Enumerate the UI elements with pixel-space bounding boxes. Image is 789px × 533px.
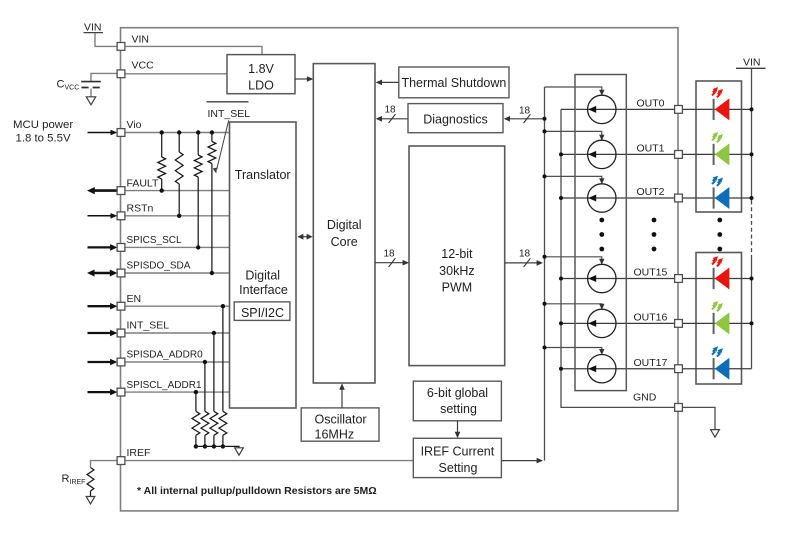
svg-text:Digital: Digital (245, 269, 280, 283)
svg-text:OUT17: OUT17 (634, 357, 668, 369)
wire current-sink row OUT0 (561, 108, 675, 110)
wire OUT0 to LED to VIN rail (682, 108, 751, 110)
block 1.8V LDO (227, 55, 295, 94)
ground (R_IREF) (86, 497, 95, 504)
svg-text:* All internal pullup/pulldow: * All internal pullup/pulldown Resistors… (137, 485, 377, 497)
pin RSTn terminal (117, 212, 125, 220)
IC boundary box (121, 28, 679, 511)
resistor pullup R3 (5M) (194, 155, 202, 177)
wire pullup R1 bottom (160, 179, 164, 193)
label C_VCC (57, 79, 80, 92)
pin label SPISDA_ADDR0 (127, 350, 204, 361)
svg-text:GND: GND (633, 392, 657, 404)
pin SPISDA_ADDR0 terminal (117, 358, 125, 366)
input arrow SPISCL_ADDR1 (88, 389, 118, 396)
pin label Vio (127, 119, 142, 131)
LED green D5 (712, 299, 729, 334)
wire OUT2 to LED to VIN rail (682, 197, 751, 199)
block Oscillator 16MHz (301, 408, 379, 442)
pin VIN terminal (117, 43, 125, 51)
wire current-sink row OUT15 (559, 277, 675, 281)
wire OUT17 to LED to VIN rail (682, 368, 751, 370)
svg-text:SPISDO_SDA: SPISDO_SDA (127, 261, 191, 272)
svg-text:IREF: IREF (70, 479, 86, 486)
wire pullup R4 bottom (210, 164, 214, 276)
LED blue D3 (712, 174, 729, 209)
svg-text:Vio: Vio (127, 119, 142, 131)
LED green D2 (712, 130, 729, 165)
svg-text:SPISCL_ADDR1: SPISCL_ADDR1 (127, 380, 202, 391)
wire pulldown R8 top (194, 390, 198, 411)
capacitor C_VCC (81, 82, 101, 97)
wire pulldown R8 bottom (194, 435, 198, 448)
svg-text:OUT2: OUT2 (637, 186, 665, 198)
svg-text:Thermal Shutdown: Thermal Shutdown (401, 76, 506, 90)
svg-text:Translator: Translator (235, 168, 291, 182)
label OUT16 (634, 312, 668, 324)
wire pin SPISDA_ADDR0 to Digital Interface (125, 361, 230, 363)
ground (GND pin) (711, 430, 720, 438)
note pullup/pulldown resistors (137, 485, 377, 497)
label OUT17 (634, 357, 668, 369)
wire pulldown common to ground (196, 446, 239, 447)
pin EN terminal (117, 302, 125, 310)
svg-text:VCC: VCC (132, 60, 155, 72)
net label INT_SEL (overline) (207, 102, 251, 120)
bus arrow node to Diagnostics (18) (504, 105, 545, 123)
wire VIN internal rail (125, 46, 262, 54)
wire VIN external to pin (95, 33, 117, 46)
svg-text:SPICS_SCL: SPICS_SCL (127, 235, 182, 246)
resistor pullup R1 (5M) (158, 157, 166, 179)
ground (C_VCC) (86, 97, 95, 105)
pin VCC terminal (117, 70, 125, 78)
block Translator / Digital Interface (230, 122, 297, 408)
bus arrow Digital Core to PWM (18) (375, 248, 409, 267)
svg-text:LDO: LDO (248, 78, 274, 92)
net label VIN (LED supply) (736, 56, 766, 68)
arrow IREF Current Setting to output node (501, 458, 543, 464)
svg-text:INT_SEL: INT_SEL (208, 108, 251, 120)
arrow 6-bit global setting to IREF Current Setting (455, 421, 461, 438)
pin label IREF (127, 447, 151, 459)
wire pulldown R5 top (221, 304, 225, 411)
wire OUT1 to LED to VIN rail (682, 153, 751, 155)
svg-text:1.8V: 1.8V (248, 62, 274, 76)
pin label VCC (132, 60, 155, 72)
wire pin SPICS_SCL to Digital Interface (125, 246, 230, 248)
resistor pulldown R7 (5M) (201, 411, 209, 435)
wire pin EN to Digital Interface (125, 305, 230, 307)
svg-text:1.8 to 5.5V: 1.8 to 5.5V (16, 133, 71, 145)
wire control feed OUT2 (543, 174, 605, 184)
current source OUT17 (588, 355, 616, 383)
junctions VIN rail (750, 107, 754, 325)
pin GND terminal (675, 404, 683, 412)
block IREF Current Setting (413, 438, 501, 477)
bus node GND return (vertical) (561, 109, 675, 407)
ground (pulldown network) (235, 448, 244, 455)
block 6-bit global setting (413, 381, 501, 421)
wire pullup R3 top (196, 130, 200, 155)
svg-text:RSTn: RSTn (127, 203, 154, 215)
arrow LDO to Digital Core (295, 76, 313, 82)
svg-text:VCC: VCC (65, 85, 80, 92)
pin SPISDO_SDA terminal (117, 269, 125, 277)
pin INT_SEL terminal (117, 329, 125, 337)
pin SPICS_SCL terminal (117, 244, 125, 252)
wire pulldown R6 bottom (212, 435, 216, 448)
wire VIN rail (dashed) (751, 201, 753, 257)
svg-text:R: R (62, 473, 70, 485)
resistor pullup R2 (5M) (175, 152, 183, 184)
input arrow INT_SEL (88, 330, 118, 337)
block current-sink array (575, 75, 626, 391)
wire pin RSTn to Digital Interface (125, 215, 230, 217)
svg-text:IREF Current: IREF Current (421, 445, 495, 459)
wire pulldown R7 bottom (203, 435, 207, 448)
input arrow RSTn (88, 213, 118, 219)
ellipsis dots (outputs) (652, 218, 657, 252)
resistor pulldown R6 (5M) (210, 411, 218, 435)
bus node control (vertical) (544, 87, 546, 461)
resistor pulldown R5 (5M) (219, 411, 227, 435)
resistor pullup R4 (5M) (208, 142, 216, 164)
svg-text:OUT15: OUT15 (634, 267, 668, 279)
svg-text:Core: Core (331, 235, 358, 249)
wire pulldown R7 top (203, 360, 207, 412)
wire VIN rail (solid top) (751, 68, 753, 200)
wire pulldown R6 top (212, 331, 216, 412)
label OUT15 (634, 267, 668, 279)
resistor R_IREF (87, 468, 94, 492)
input arrow FAULT (87, 187, 117, 194)
block Digital Core (313, 64, 375, 383)
LED red D4 (712, 254, 729, 289)
input arrow SPICS_SCL (88, 244, 118, 251)
block 12-bit 30kHz PWM (409, 146, 505, 366)
current source OUT15 (588, 264, 616, 292)
svg-text:Interface: Interface (239, 283, 288, 297)
svg-text:18: 18 (519, 105, 531, 116)
svg-text:30kHz: 30kHz (439, 264, 474, 278)
svg-text:IREF: IREF (127, 447, 151, 459)
pin label RSTn (127, 203, 154, 215)
wire pullup R3 bottom (196, 177, 200, 250)
junction diagnostics bus (543, 117, 547, 121)
svg-text:18: 18 (519, 249, 531, 260)
wire pin SPISCL_ADDR1 to Digital Interface (125, 391, 230, 393)
svg-text:VIN: VIN (84, 22, 102, 34)
arrow Thermal Shutdown to Digital Core (376, 80, 399, 86)
pin IREF terminal (117, 457, 125, 465)
pin label GND (633, 392, 657, 404)
annotation arrow INT_SEL to pullup (213, 120, 229, 174)
input arrow EN (88, 303, 118, 310)
wire VCC to LDO (125, 73, 227, 75)
block Thermal Shutdown (399, 67, 509, 98)
svg-text:Setting: Setting (439, 461, 478, 475)
label R_IREF (62, 473, 86, 486)
block RGB LED group 1 (696, 81, 742, 212)
current source OUT16 (588, 309, 616, 337)
svg-text:setting: setting (440, 402, 477, 416)
input arrow SPISDA_ADDR0 (88, 359, 118, 366)
svg-text:C: C (57, 79, 65, 91)
resistor pulldown R8 (5M) (192, 411, 200, 435)
svg-text:Digital: Digital (327, 218, 362, 232)
wire pin Vio to Digital Interface (125, 132, 230, 134)
current source OUT2 (588, 184, 616, 212)
input arrow Vio (88, 130, 118, 136)
svg-text:PWM: PWM (442, 281, 473, 295)
wire OUT15 to LED to VIN rail (682, 278, 751, 280)
pin label SPISCL_ADDR1 (127, 380, 202, 391)
wire control feed OUT16 (543, 302, 605, 310)
label OUT1 (637, 143, 665, 155)
label OUT2 (637, 186, 665, 198)
svg-text:INT_SEL: INT_SEL (127, 320, 170, 332)
pin label SPICS_SCL (127, 235, 182, 246)
LED blue D6 (712, 345, 729, 380)
svg-text:Oscillator: Oscillator (315, 413, 367, 427)
wire current-sink row OUT1 (559, 152, 675, 156)
pin FAULT terminal (117, 187, 125, 195)
label OUT0 (637, 98, 665, 110)
block SPI/I2C (234, 302, 290, 321)
svg-text:SPI/I2C: SPI/I2C (241, 306, 284, 320)
arrow Oscillator to Digital Core (339, 383, 345, 408)
pin label FAULT (127, 177, 159, 189)
current source OUT0 (588, 95, 616, 123)
svg-text:SPISDA_ADDR0: SPISDA_ADDR0 (127, 350, 204, 361)
ellipsis dots (leds) (717, 218, 722, 252)
pin SPISCL_ADDR1 terminal (117, 388, 125, 396)
wire VCC to Cvcc (91, 73, 117, 81)
svg-text:12-bit: 12-bit (441, 247, 473, 261)
wire pullup R2 top (177, 130, 181, 152)
LED red D1 (712, 85, 729, 120)
svg-text:OUT0: OUT0 (637, 98, 665, 110)
bus arrow PWM to output node (18) (505, 249, 543, 268)
wire pullup R4 top (210, 130, 214, 141)
wire pullup R1 top (160, 130, 164, 157)
wire current-sink row OUT17 (559, 367, 675, 371)
svg-text:VIN: VIN (132, 33, 150, 45)
pin label SPISDO_SDA (127, 261, 191, 272)
wire control feed OUT15 (543, 255, 605, 265)
svg-text:OUT16: OUT16 (634, 312, 668, 324)
bus arrow Diagnostics to Digital Core (18) (376, 104, 408, 123)
wire current-sink row OUT2 (559, 196, 675, 200)
wire IREF to IREF Current Setting (125, 460, 413, 462)
wire R_IREF to ground (90, 491, 92, 497)
block RGB LED group 2 (696, 253, 742, 385)
pin OUT0 terminal (675, 106, 683, 114)
bus arrow Translator-Digital Core (297, 234, 312, 240)
block Diagnostics (408, 104, 503, 133)
wire VIN rail (solid bottom) (751, 256, 753, 369)
svg-text:18: 18 (384, 104, 396, 115)
pin OUT15 terminal (675, 275, 683, 283)
pin label EN (127, 293, 142, 305)
pin OUT16 terminal (675, 320, 683, 328)
wire pullup R2 bottom (177, 184, 181, 218)
svg-text:VIN: VIN (743, 56, 761, 68)
wire current-sink row OUT16 (559, 321, 675, 325)
pin OUT17 terminal (675, 365, 683, 373)
wire OUT16 to LED to VIN rail (682, 322, 751, 324)
svg-text:EN: EN (127, 293, 142, 305)
wire control feed OUT0 (545, 87, 605, 96)
svg-text:18: 18 (383, 248, 395, 259)
svg-text:FAULT: FAULT (127, 177, 159, 189)
wire pulldown R5 bottom (221, 435, 225, 448)
wire IREF to R_IREF (91, 461, 118, 468)
wire pin INT_SEL to Digital Interface (125, 332, 230, 334)
ellipsis dots (array) (599, 218, 604, 252)
wire control feed OUT17 (543, 346, 605, 356)
input arrow SPISDO_SDA (87, 270, 117, 277)
pin OUT2 terminal (675, 194, 683, 202)
svg-text:6-bit global: 6-bit global (427, 386, 488, 400)
pin label VIN (132, 33, 150, 45)
net label VIN (external supply) (84, 22, 104, 34)
wire GND to ground (682, 407, 715, 429)
current source OUT1 (588, 140, 616, 168)
pin Vio terminal (117, 129, 125, 137)
pin label INT_SEL (127, 320, 170, 332)
label MCU power (13, 119, 73, 145)
svg-text:Diagnostics: Diagnostics (423, 113, 488, 127)
wire pin SPISDO_SDA to Digital Interface (125, 272, 230, 274)
svg-text:MCU power: MCU power (13, 119, 73, 131)
wire pin FAULT to Digital Interface (125, 190, 230, 192)
pin OUT1 terminal (675, 151, 683, 159)
svg-text:OUT1: OUT1 (637, 143, 665, 155)
svg-text:16MHz: 16MHz (315, 428, 355, 442)
wire control feed OUT1 (543, 129, 605, 140)
